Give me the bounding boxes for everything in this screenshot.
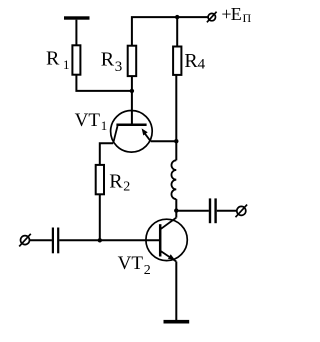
label R4 bbox=[184, 50, 205, 73]
label +EП bbox=[221, 4, 251, 25]
svg-text:2: 2 bbox=[144, 263, 151, 278]
svg-text:R: R bbox=[101, 49, 115, 71]
wire C1 to VT2 base bbox=[59, 239, 160, 241]
terminal +E bbox=[207, 12, 217, 23]
wire chassis to R1 bbox=[75, 20, 77, 45]
resistor R3 bbox=[128, 46, 137, 76]
junction dot node C bbox=[174, 208, 178, 212]
svg-text:R: R bbox=[184, 50, 198, 72]
junction dot node B bbox=[174, 139, 178, 143]
ground bbox=[164, 320, 190, 324]
svg-text:R: R bbox=[46, 47, 60, 69]
wire node B to inductor bbox=[175, 141, 177, 160]
wire VT1 collector to R2 bbox=[100, 143, 113, 165]
junction dot node A bbox=[130, 89, 134, 93]
wire R4 top lead bbox=[176, 17, 178, 46]
wire inductor to VT2 collector bbox=[175, 199, 177, 218]
label VT2 bbox=[118, 253, 151, 278]
wire R4 bottom to node B bbox=[175, 75, 177, 141]
output terminal bbox=[236, 205, 248, 218]
resistor R2 bbox=[96, 165, 104, 194]
wire R2 bottom to input line bbox=[99, 194, 101, 240]
inductor L1 bbox=[171, 160, 176, 199]
svg-text:2: 2 bbox=[123, 179, 130, 194]
wire C2 to output terminal bbox=[217, 210, 237, 212]
junction dot input line bbox=[98, 238, 102, 242]
wire input terminal to C1 bbox=[30, 239, 52, 241]
chassis bar top bbox=[64, 16, 90, 19]
svg-text:3: 3 bbox=[115, 59, 123, 75]
resistor R1 bbox=[72, 45, 80, 74]
svg-text:1: 1 bbox=[101, 118, 108, 133]
transistor VT1 bbox=[111, 111, 153, 153]
svg-text:VT: VT bbox=[118, 253, 144, 274]
capacitor C1 bbox=[53, 228, 58, 254]
wire R1 bottom to node A bbox=[76, 75, 131, 91]
resistor R4 bbox=[173, 47, 181, 75]
input terminal bbox=[19, 234, 31, 247]
svg-text:П: П bbox=[243, 11, 252, 25]
wire VT2 emitter to ground bbox=[175, 262, 177, 321]
svg-text:E: E bbox=[231, 4, 242, 24]
wire node C to C2 bbox=[176, 210, 209, 212]
svg-text:4: 4 bbox=[198, 57, 206, 73]
transistor VT2 bbox=[146, 218, 187, 262]
svg-text:VT: VT bbox=[75, 110, 101, 131]
label VT1 bbox=[75, 110, 108, 133]
wire top rail bbox=[132, 17, 208, 45]
capacitor C2 bbox=[210, 198, 216, 223]
svg-text:R: R bbox=[109, 170, 123, 192]
wire node B horizontal (VT1 emitter) bbox=[151, 140, 177, 142]
label R2 bbox=[109, 170, 130, 194]
junction dot top rail / R4 bbox=[175, 15, 179, 19]
label R1 bbox=[46, 47, 70, 72]
wire R3 bottom to VT1 base bbox=[131, 76, 133, 125]
label R3 bbox=[101, 49, 123, 76]
svg-text:1: 1 bbox=[63, 57, 70, 72]
